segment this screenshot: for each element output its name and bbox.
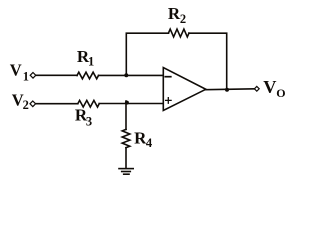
svg-text:2: 2 (23, 98, 29, 112)
svg-text:1: 1 (88, 54, 94, 68)
svg-text:V: V (263, 77, 276, 97)
svg-text:4: 4 (146, 136, 153, 150)
svg-text:1: 1 (23, 69, 29, 83)
svg-text:V: V (10, 61, 22, 80)
svg-text:O: O (276, 86, 285, 100)
svg-text:3: 3 (86, 114, 92, 128)
svg-text:2: 2 (180, 12, 186, 26)
